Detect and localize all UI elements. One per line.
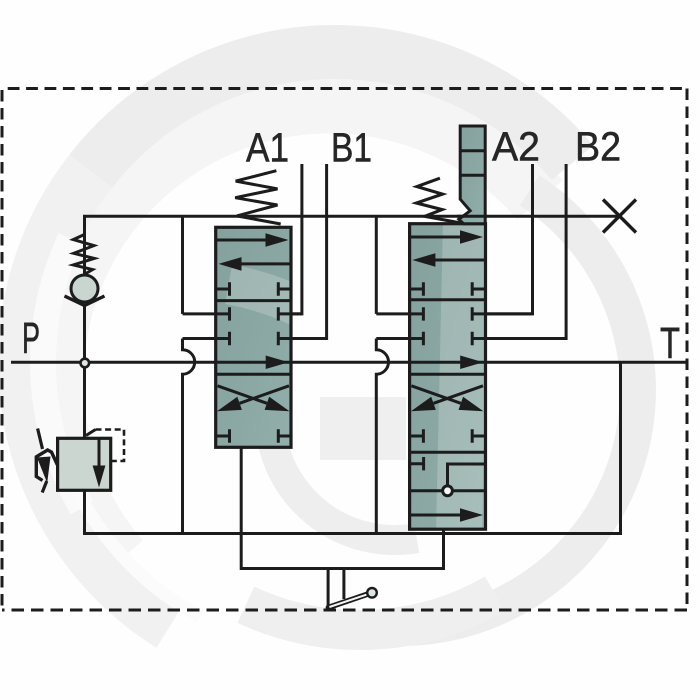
wire P junction to relief valve [83, 368, 86, 438]
wire B2 port line [486, 164, 567, 339]
check valve CV1 ball [71, 275, 98, 302]
wire check valve to P junction [83, 306, 86, 359]
valve V2 detent tower [459, 126, 485, 224]
dashed enclosure border [2, 89, 687, 611]
valve V2 float box line with pilot circle [410, 489, 486, 492]
valve V1 blocked ports row D [216, 429, 291, 442]
valve V1 P-line through arrow [216, 361, 291, 364]
valve V2 crossed arrows [411, 386, 460, 404]
svg-text:T: T [660, 319, 680, 368]
svg-text:P: P [22, 314, 40, 363]
watermark G background [25, 52, 638, 630]
wire A2 port line [486, 164, 533, 314]
valve V2 arrow left [434, 259, 486, 262]
valve V1 arrow right top [216, 239, 267, 242]
wire riser bridge to valve1 left port [181, 216, 184, 314]
svg-text:A1: A1 [246, 125, 289, 171]
wire tank drop left [327, 569, 330, 610]
relief valve RV1 flow arrow [98, 438, 101, 466]
valve V2 float box pilot link [448, 464, 486, 486]
valve V1 blocked ports row C [183, 332, 327, 345]
valve V1 blocked ports row B [183, 307, 302, 320]
valve V2 blocked ports row A [410, 282, 486, 295]
valve V2 blocked ports row D [410, 429, 486, 442]
wire valve2 drain drop with hop over P line [376, 339, 388, 534]
wire tank collector line [85, 362, 621, 533]
wire bottom drain line between valve outlets [241, 447, 443, 568]
valve V1 crossed arrows [218, 386, 267, 404]
svg-text:B2: B2 [575, 124, 621, 170]
valve V2 float box arrow [410, 514, 461, 517]
valve V2 arrow right top [410, 236, 461, 239]
wire B1 port line [291, 164, 327, 339]
relief valve RV1 body [58, 438, 111, 490]
wire P main line [11, 361, 687, 364]
valve V2 body [410, 224, 486, 530]
check valve CV1 spring [83, 216, 86, 276]
drain lever rod [328, 594, 369, 608]
valve V2 float box blocked port [410, 457, 424, 470]
relief valve RV1 adjustable spring [36, 450, 57, 481]
plugged port X at end of bridge [603, 200, 636, 233]
drain lever knob [367, 588, 377, 598]
wire riser bridge to valve2 left port [375, 216, 378, 314]
check valve CV1 seat [65, 296, 105, 306]
valve V2 position dividers [410, 300, 486, 453]
relief valve RV1 pilot line [86, 430, 96, 436]
valve V1 blocked ports row A [216, 282, 291, 295]
wire top bridge from check valve to plug [85, 216, 620, 218]
valve V1 arrow left [240, 262, 291, 265]
valve V2 spring [416, 178, 463, 223]
node junction dot on P line [81, 359, 90, 368]
valve V2 P-line through arrow [410, 361, 486, 364]
wire valve1 drain drop with hop over P line [183, 339, 195, 534]
valve V1 body [216, 227, 291, 447]
svg-text:A2: A2 [492, 124, 540, 170]
wire bridge segment over detent tower [457, 215, 487, 218]
wire A1 port line [291, 164, 302, 314]
wire tank drop right [342, 569, 345, 600]
svg-text:B1: B1 [331, 125, 372, 171]
valve V2 blocked ports row C [376, 332, 566, 345]
valve V2 blocked ports row B [376, 307, 532, 320]
valve V1 spring [235, 171, 281, 224]
valve V1 position dividers [216, 301, 291, 375]
